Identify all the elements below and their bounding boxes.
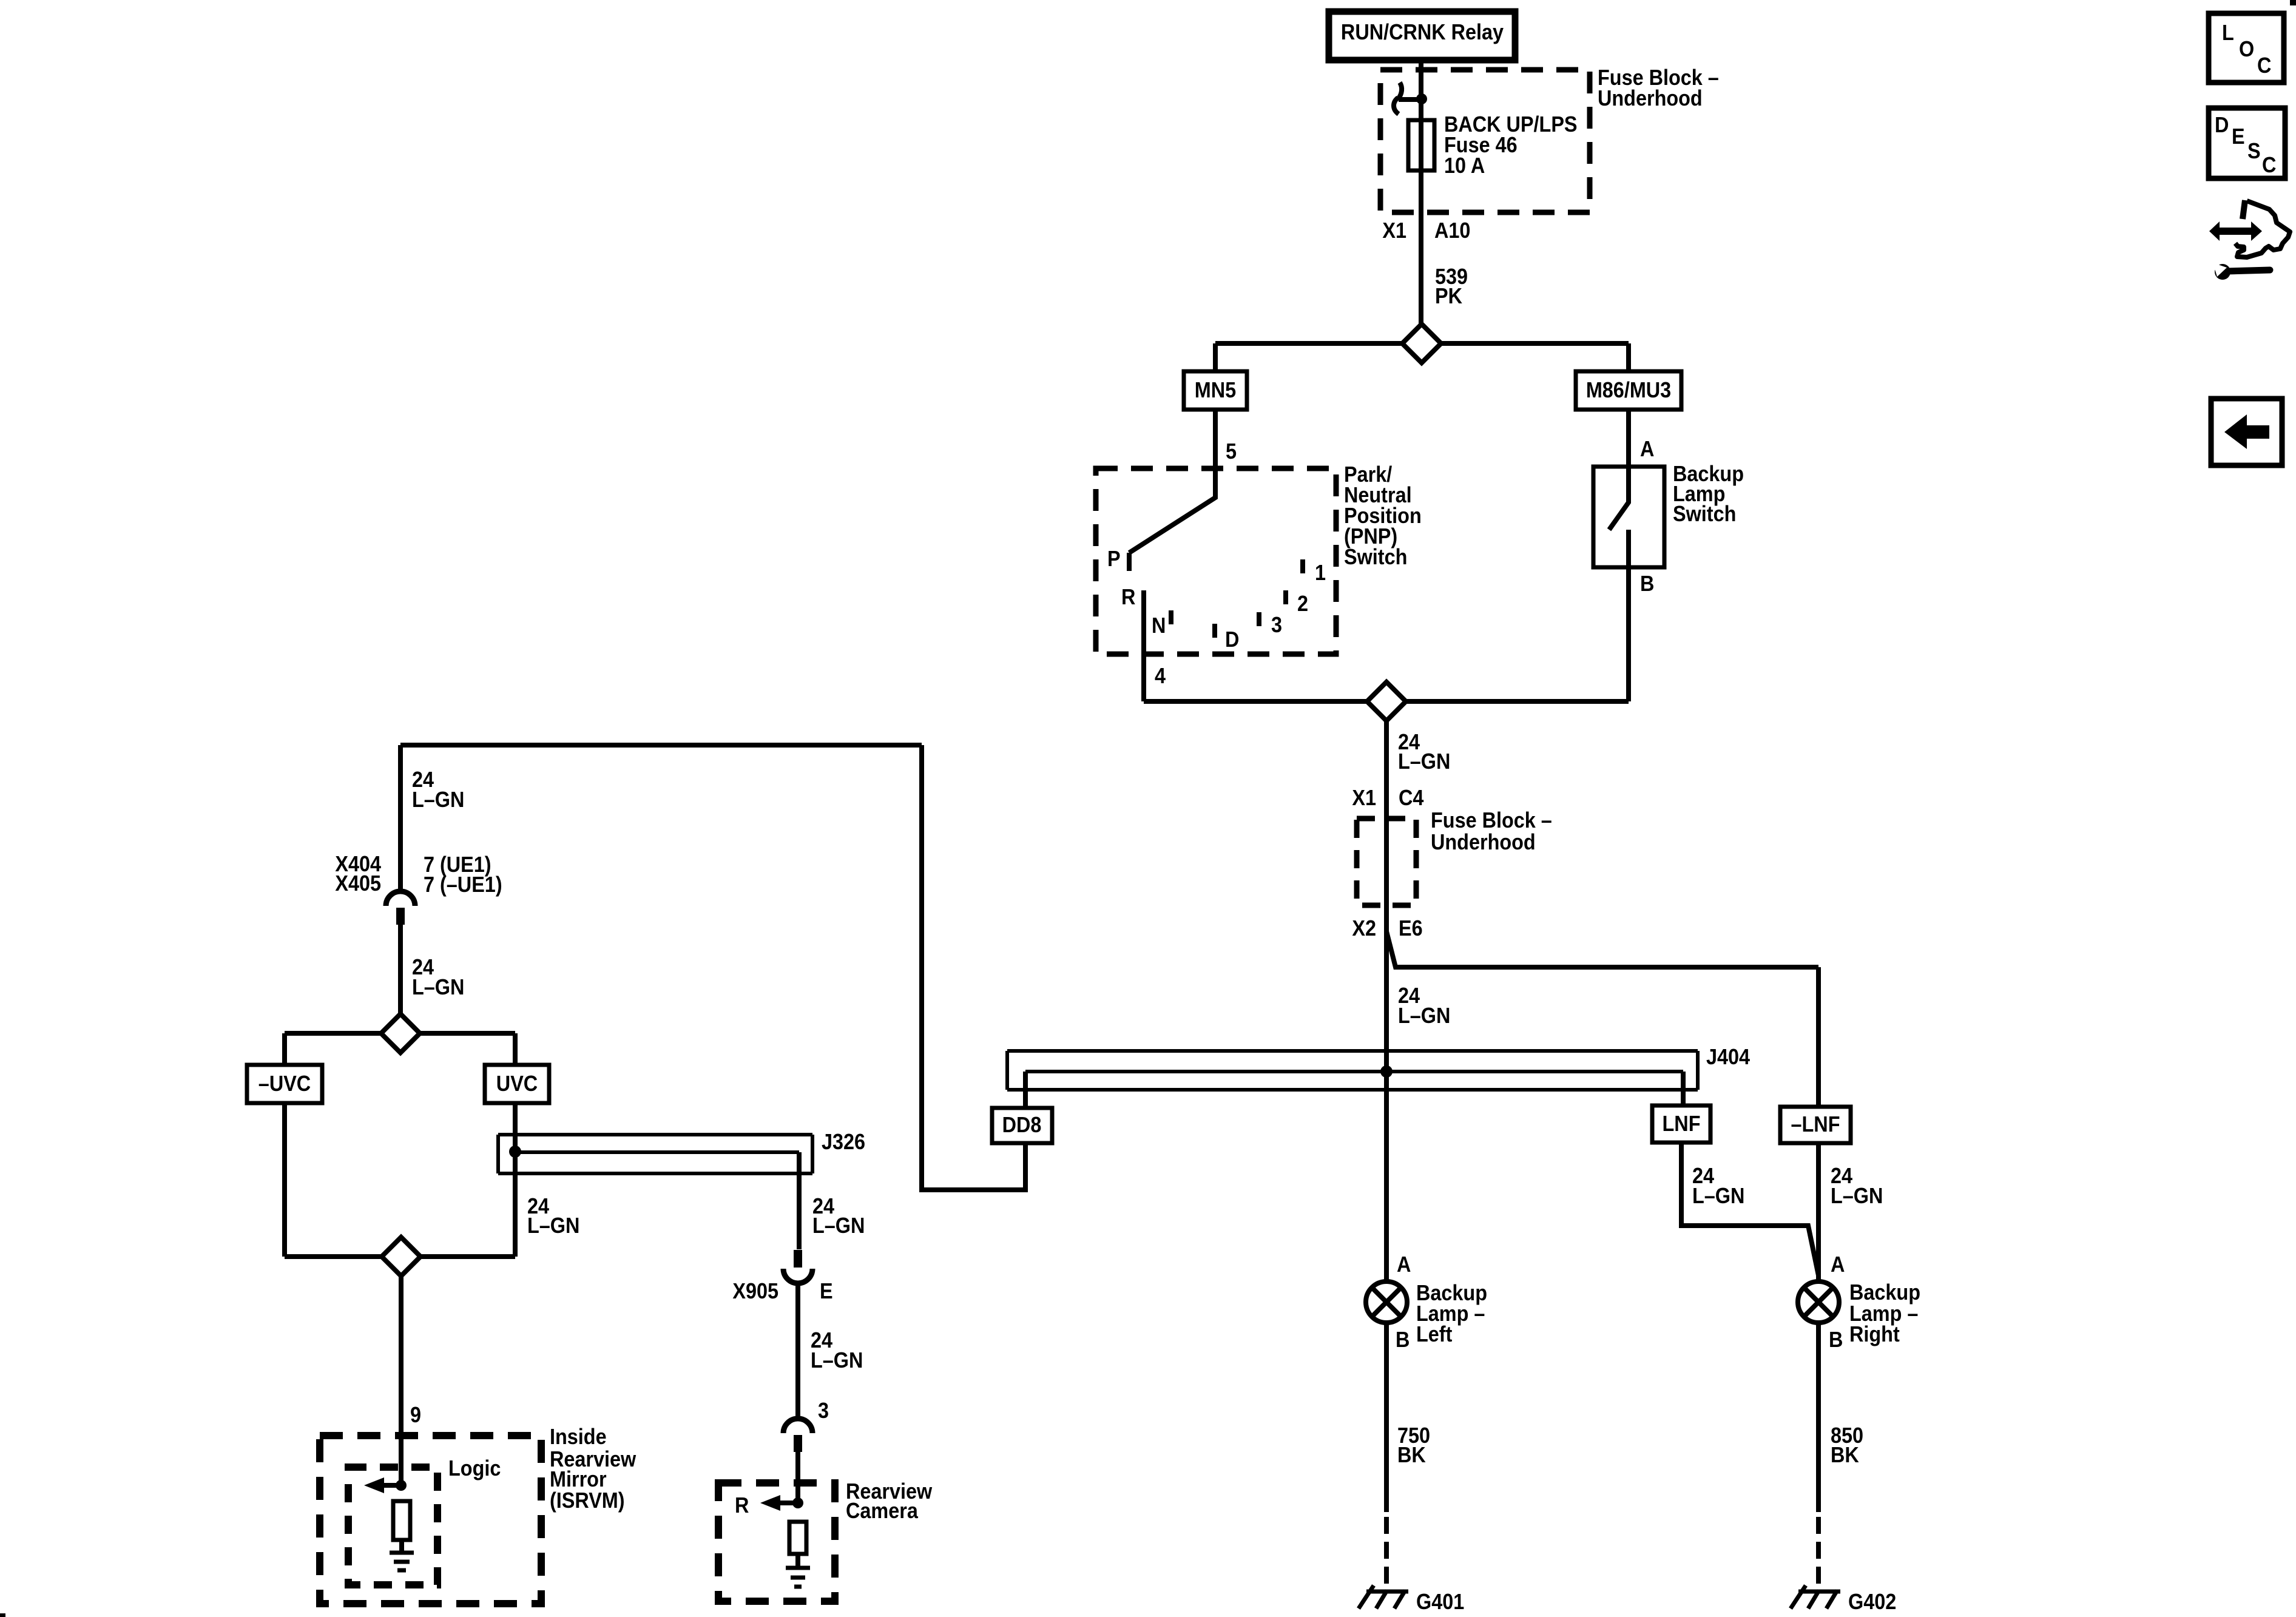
svg-text:3: 3: [1271, 613, 1282, 637]
svg-text:L–GN: L–GN: [1692, 1184, 1744, 1208]
svg-text:A: A: [1640, 437, 1654, 461]
svg-text:L–GN: L–GN: [412, 975, 464, 999]
svg-text:3: 3: [818, 1399, 829, 1423]
svg-text:5: 5: [1226, 439, 1237, 464]
svg-text:C: C: [2262, 153, 2276, 177]
svg-text:10 A: 10 A: [1444, 154, 1485, 178]
svg-text:J404: J404: [1706, 1045, 1750, 1069]
svg-text:O: O: [2239, 37, 2254, 61]
svg-text:X2: X2: [1352, 916, 1376, 940]
svg-text:Inside: Inside: [550, 1425, 607, 1449]
svg-text:7 (–UE1): 7 (–UE1): [424, 873, 502, 897]
svg-text:L: L: [2222, 21, 2234, 45]
svg-text:Switch: Switch: [1673, 502, 1736, 526]
svg-text:R: R: [735, 1493, 749, 1517]
svg-text:9: 9: [410, 1403, 421, 1427]
svg-text:Backup: Backup: [1849, 1280, 1920, 1305]
svg-text:J326: J326: [822, 1130, 865, 1154]
svg-text:X1: X1: [1382, 218, 1406, 243]
svg-text:B: B: [1396, 1328, 1410, 1352]
svg-text:4: 4: [1155, 664, 1166, 688]
svg-text:–LNF: –LNF: [1791, 1112, 1840, 1136]
svg-text:S: S: [2247, 139, 2261, 163]
svg-text:MN5: MN5: [1195, 378, 1236, 402]
svg-text:N: N: [1152, 613, 1166, 638]
svg-text:UVC: UVC: [496, 1072, 538, 1096]
svg-text:RUN/CRNK Relay: RUN/CRNK Relay: [1341, 20, 1504, 44]
svg-text:Switch: Switch: [1344, 545, 1407, 569]
svg-text:L–GN: L–GN: [812, 1214, 865, 1238]
svg-text:P: P: [1107, 547, 1121, 571]
svg-text:Right: Right: [1849, 1322, 1900, 1346]
svg-text:B: B: [1640, 572, 1654, 596]
svg-text:E: E: [820, 1279, 833, 1303]
svg-text:R: R: [1121, 585, 1136, 609]
svg-text:G402: G402: [1848, 1590, 1896, 1614]
svg-text:A10: A10: [1434, 218, 1470, 243]
svg-text:D: D: [2215, 113, 2229, 137]
svg-text:G401: G401: [1416, 1590, 1464, 1614]
svg-text:1: 1: [1315, 561, 1326, 585]
svg-text:Underhood: Underhood: [1431, 830, 1536, 854]
svg-text:2: 2: [1297, 592, 1308, 616]
svg-text:X905: X905: [732, 1279, 778, 1303]
svg-text:M86/MU3: M86/MU3: [1586, 378, 1671, 402]
svg-text:A: A: [1831, 1252, 1845, 1277]
svg-text:(ISRVM): (ISRVM): [550, 1488, 625, 1513]
svg-text:L–GN: L–GN: [1831, 1184, 1883, 1208]
svg-text:E6: E6: [1399, 916, 1423, 940]
svg-text:L–GN: L–GN: [527, 1214, 579, 1238]
svg-text:LNF: LNF: [1663, 1112, 1701, 1136]
svg-text:L–GN: L–GN: [811, 1348, 863, 1372]
svg-text:D: D: [1225, 627, 1239, 652]
svg-text:L–GN: L–GN: [412, 788, 464, 812]
svg-text:Left: Left: [1416, 1322, 1452, 1346]
svg-text:Fuse Block –: Fuse Block –: [1431, 808, 1552, 832]
svg-text:L–GN: L–GN: [1398, 749, 1450, 774]
svg-text:Mirror: Mirror: [550, 1467, 607, 1491]
svg-text:DD8: DD8: [1002, 1113, 1042, 1137]
svg-text:X1: X1: [1352, 786, 1376, 810]
svg-text:L–GN: L–GN: [1398, 1004, 1450, 1028]
svg-text:BK: BK: [1397, 1443, 1426, 1467]
svg-text:PK: PK: [1435, 284, 1462, 308]
svg-text:–UVC: –UVC: [258, 1072, 311, 1096]
svg-text:B: B: [1829, 1328, 1843, 1352]
svg-text:C4: C4: [1399, 786, 1423, 810]
svg-text:Camera: Camera: [846, 1499, 919, 1523]
svg-text:Logic: Logic: [448, 1456, 501, 1480]
svg-text:A: A: [1397, 1252, 1411, 1277]
svg-text:X405: X405: [335, 871, 381, 896]
svg-text:BK: BK: [1831, 1443, 1859, 1467]
svg-text:Underhood: Underhood: [1598, 86, 1703, 110]
svg-text:E: E: [2232, 124, 2245, 149]
svg-text:C: C: [2257, 53, 2271, 78]
